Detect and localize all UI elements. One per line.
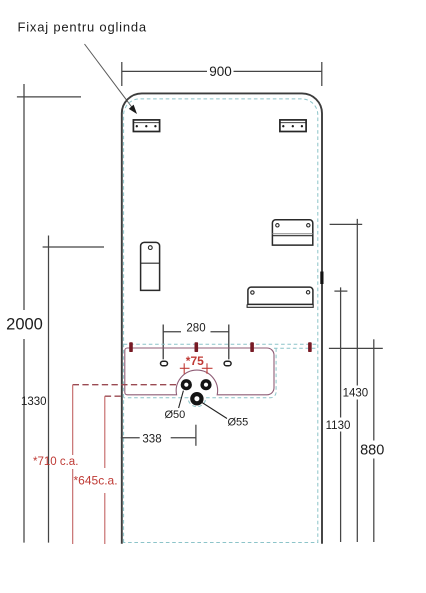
main panel outline xyxy=(122,93,322,543)
svg-text:*645c.a.: *645c.a. xyxy=(74,474,118,488)
tap hole left (Ø50) xyxy=(181,379,192,390)
fixing tick 4 xyxy=(308,342,312,352)
svg-text:1330: 1330 xyxy=(21,396,47,408)
red dashed level line *645 xyxy=(105,395,124,397)
fixing tick 2 xyxy=(195,342,199,352)
dimension 900 line xyxy=(122,70,207,72)
leader Ø55 xyxy=(202,403,227,419)
dimension 1130 line xyxy=(340,287,342,417)
dimension 900 extension ticks xyxy=(121,62,123,86)
svg-text:Fixaj pentru oglinda: Fixaj pentru oglinda xyxy=(18,20,147,35)
mirror bracket left xyxy=(133,120,159,132)
dimension *75 (red) xyxy=(180,367,190,369)
tall accessory bracket left xyxy=(141,242,160,290)
dimension 1330 line xyxy=(48,236,50,543)
drain hole (Ø55) xyxy=(190,392,203,405)
svg-text:900: 900 xyxy=(209,64,232,79)
oval slot left xyxy=(161,361,168,366)
dimension 280 extension lines xyxy=(162,325,164,360)
red vertical line *645 xyxy=(104,396,106,468)
leader Ø50 xyxy=(179,391,184,408)
dimension 880 tick xyxy=(329,347,383,349)
svg-text:*710 c.a.: *710 c.a. xyxy=(33,456,78,468)
svg-text:338: 338 xyxy=(142,433,161,445)
svg-text:2000: 2000 xyxy=(6,316,43,334)
dimension 2000 line xyxy=(23,84,25,310)
svg-text:880: 880 xyxy=(360,443,384,459)
dimension 1130 tick xyxy=(334,290,347,292)
sink dashed offset outline right/bottom with arc around drain xyxy=(124,348,277,406)
dimension 1430 line xyxy=(356,219,358,386)
dimension 338 line xyxy=(121,437,140,439)
svg-text:280: 280 xyxy=(186,322,205,334)
fixing tick 1 xyxy=(129,342,133,352)
dimension 2000 tick xyxy=(17,96,81,98)
mirror bracket right xyxy=(280,120,306,132)
sink region dashed top line xyxy=(124,343,318,345)
svg-text:1430: 1430 xyxy=(343,388,369,400)
panel inset dashed outline xyxy=(124,99,318,543)
dimension 280 line xyxy=(163,331,181,333)
svg-text:1130: 1130 xyxy=(326,420,351,432)
wall fixing mark on right edge xyxy=(320,272,323,285)
tap hole right xyxy=(200,379,211,390)
svg-text:Ø50: Ø50 xyxy=(165,409,186,421)
sink dashed top offset line right xyxy=(274,347,318,349)
fixing tick 3 xyxy=(250,342,254,352)
dimension 1430 tick xyxy=(330,223,363,225)
dimension 880 line xyxy=(373,339,375,440)
leader arrow to left mirror bracket xyxy=(85,44,133,108)
svg-text:Ø55: Ø55 xyxy=(228,417,249,429)
red vertical line *710 xyxy=(72,385,74,455)
red dashed level line *710 xyxy=(73,384,177,386)
svg-text:*75: *75 xyxy=(186,354,204,368)
lower wide shelf bracket xyxy=(247,287,313,307)
oval slot right xyxy=(224,361,231,366)
upper right shelf bracket xyxy=(272,220,312,245)
dimension 338 tick xyxy=(195,425,197,446)
dimension 1330 tick xyxy=(43,246,104,248)
sink template outline (plum) with faucet dome xyxy=(125,348,274,395)
